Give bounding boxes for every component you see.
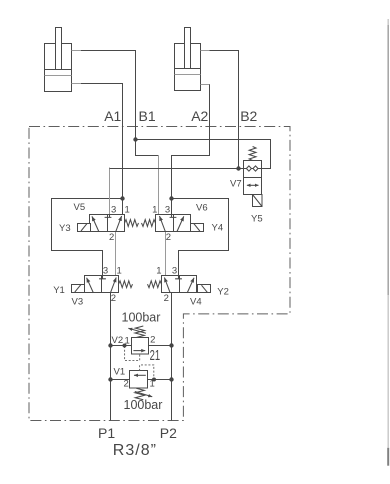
svg-text:V2: V2 — [112, 335, 124, 346]
wire V2 port1 stub — [111, 345, 132, 347]
wire V5 port 2 to V3 port 1 — [115, 232, 117, 276]
svg-text:Y4: Y4 — [212, 223, 224, 234]
junction dot A2/V6 port3 — [169, 196, 173, 200]
junction dot A1/V5 port1 — [120, 196, 124, 200]
solenoid Y2 — [198, 285, 211, 293]
wire V5 port3 corner to B2/V7 left port — [110, 168, 244, 170]
spring V1 — [135, 388, 145, 400]
wire cylinder2 top port stub — [201, 50, 210, 52]
svg-text:3: 3 — [172, 266, 177, 277]
spring V2 — [135, 326, 145, 338]
wire V5 port 3 to B2 / V7 left port — [109, 168, 111, 215]
solenoid Y3 — [78, 224, 91, 232]
svg-text:Y2: Y2 — [217, 286, 229, 297]
svg-text:Y5: Y5 — [251, 214, 263, 225]
spring V6 — [142, 220, 156, 227]
wire cylinder1 bottom port stub — [71, 83, 81, 85]
wire B1 jog down to V6 port 1 — [158, 156, 160, 215]
cylinder 2 — [175, 28, 201, 91]
wire cylinder1 top port to B1 to V6 port 1 — [81, 51, 158, 156]
wire A1 branch to V3 port 3 — [52, 199, 123, 276]
relief valve V2 — [132, 338, 149, 355]
svg-text:Y3: Y3 — [59, 223, 71, 234]
svg-text:1: 1 — [117, 266, 122, 277]
pilot line V2 (dashed) — [125, 346, 140, 360]
svg-text:P1: P1 — [98, 425, 115, 441]
spring V4 — [148, 281, 162, 288]
adjust arrow V1 — [135, 392, 152, 397]
svg-text:V3: V3 — [72, 297, 84, 308]
solenoid Y5 — [253, 195, 263, 207]
svg-text:21: 21 — [150, 348, 161, 364]
svg-text:1: 1 — [125, 204, 130, 215]
wire V1 port2 stub — [111, 379, 130, 381]
svg-text:V6: V6 — [196, 203, 208, 214]
wire A2 branch to V4 port 3 — [172, 199, 229, 276]
valve V5 (3/2 directional valve) — [90, 215, 125, 232]
wire cylinder2 top port to B2 — [210, 51, 239, 169]
svg-text:B2: B2 — [240, 108, 257, 124]
drawing frame edge line (right) — [387, 19, 389, 466]
wire V1 port1 stub — [148, 379, 172, 381]
svg-text:1: 1 — [152, 204, 157, 215]
wire P1 riser — [110, 293, 112, 421]
spring V5 — [125, 220, 139, 227]
wire cylinder2 bottom port to A2 to V6 port 3 — [172, 85, 210, 215]
svg-text:3: 3 — [111, 204, 116, 215]
svg-text:B1: B1 — [139, 108, 156, 124]
junction dot pilot V2 — [123, 344, 127, 348]
junction dot P1-V1 — [108, 377, 112, 381]
svg-text:2: 2 — [111, 293, 116, 304]
cylinder 1 — [45, 28, 72, 92]
junction dot P2-V2 — [169, 343, 173, 347]
wire cylinder2 bottom port stub — [201, 84, 210, 86]
svg-text:V4: V4 — [190, 297, 202, 308]
svg-text:A2: A2 — [191, 108, 208, 124]
junction dot B1 — [133, 137, 137, 141]
valve V6 (3/2 directional valve) — [156, 215, 191, 232]
svg-text:V1: V1 — [114, 367, 126, 378]
enclosure boundary (dash-dot frame) — [29, 127, 290, 421]
wire P2 riser — [171, 293, 173, 421]
svg-text:P2: P2 — [160, 425, 177, 441]
svg-text:100bar: 100bar — [124, 398, 163, 412]
svg-text:2: 2 — [109, 232, 114, 243]
junction dot P2-V1 — [169, 377, 173, 381]
svg-text:3: 3 — [103, 266, 108, 277]
svg-text:R3/8”: R3/8” — [113, 442, 157, 459]
svg-text:3: 3 — [165, 204, 170, 215]
svg-text:1: 1 — [156, 266, 161, 277]
svg-text:2: 2 — [124, 378, 129, 389]
valve V4 (3/2 directional valve) — [162, 276, 197, 293]
svg-text:1: 1 — [125, 335, 130, 346]
relief valve V1 — [130, 371, 148, 389]
spring V7 — [249, 147, 256, 161]
svg-text:1: 1 — [150, 378, 155, 389]
wire cylinder1 top port stub — [71, 50, 81, 52]
svg-text:V5: V5 — [74, 202, 86, 213]
junction dot pilot V1 — [152, 378, 156, 382]
valve V3 (3/2 directional valve) — [85, 276, 119, 293]
svg-text:Y1: Y1 — [53, 285, 65, 296]
svg-text:A1: A1 — [104, 108, 121, 124]
solenoid Y4 — [191, 224, 204, 232]
wire B1 junction to V7 right port — [136, 140, 271, 169]
spring V3 — [119, 281, 133, 288]
svg-text:2: 2 — [166, 232, 171, 243]
solenoid Y1 — [72, 285, 85, 293]
adjust arrow V2 — [128, 328, 146, 333]
wire cylinder1 bottom port to A1 to V5 port 1 — [81, 84, 122, 215]
svg-text:2: 2 — [150, 334, 155, 345]
svg-text:100bar: 100bar — [122, 311, 161, 325]
wire V6 port 2 to V4 port 1 — [165, 232, 167, 276]
pilot line V1 (dashed) — [140, 365, 154, 380]
junction dot P1-V2 — [108, 343, 112, 347]
svg-text:V7: V7 — [230, 179, 242, 190]
svg-text:2: 2 — [164, 293, 169, 304]
wire V2 port2 stub — [148, 345, 171, 347]
valve V7 (2/2 valve with check elements) — [244, 161, 262, 195]
junction dot B2/V7 — [236, 166, 240, 170]
